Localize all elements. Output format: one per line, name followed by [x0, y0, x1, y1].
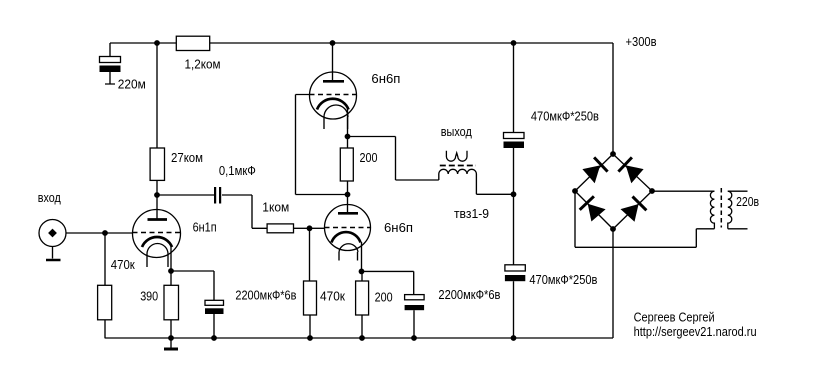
resistor 27ком: [150, 148, 164, 180]
svg-text:27ком: 27ком: [171, 150, 203, 165]
svg-text:220м: 220м: [118, 77, 146, 92]
resistor 1,2ком: [176, 36, 209, 50]
U3 cathode: [317, 99, 349, 110]
U2 heater: [339, 244, 358, 252]
triode U3 upper 6н6п envelope: [310, 72, 357, 119]
node bridge left: [572, 188, 578, 194]
svg-text:выход: выход: [441, 124, 472, 139]
transformer T1 primary: [439, 169, 477, 174]
node tube1 anode: [154, 192, 160, 198]
svg-text:470мкФ*250в: 470мкФ*250в: [531, 109, 599, 124]
wire primary to midpoint: [476, 174, 513, 194]
resistor R 200 SRPP: [340, 148, 353, 181]
resistor R 390: [164, 285, 179, 320]
capacitor 470мкФ*250в upper: [504, 133, 525, 149]
wire output node to R200 top: [347, 137, 349, 149]
node rail filter: [511, 335, 517, 341]
node rail 390: [168, 335, 174, 341]
U3 grid (dashed): [310, 94, 357, 96]
diode bridge frame: [575, 154, 652, 229]
wire 470k2 bottom: [309, 315, 311, 338]
svg-text:390: 390: [140, 289, 158, 304]
wire 390 bottom: [170, 320, 172, 338]
wire 470k bottom to rail: [104, 320, 106, 338]
wire grid node down to 470k: [309, 228, 311, 281]
wire R200 bottom to node: [347, 181, 349, 195]
resistor R 470к input: [98, 285, 112, 320]
svg-text:Сергеев Сергей: Сергеев Сергей: [634, 310, 715, 325]
transformer T2 primary winding: [728, 191, 732, 229]
U2 heater legs: [339, 252, 358, 261]
resistor R 470к second: [304, 281, 317, 315]
wire U3 cathode lead: [347, 109, 349, 137]
svg-text:http://sergeev21.narod.ru: http://sergeev21.narod.ru: [634, 324, 757, 339]
node bridge bottom: [610, 226, 616, 232]
diode D1 left-top: [582, 157, 607, 183]
transformer T2 secondary winding: [710, 191, 714, 229]
wire U3 anode lead: [332, 43, 334, 81]
diode D4 bottom-right: [621, 197, 647, 222]
wire U1 cathode node to 390 and cap: [168, 268, 174, 274]
node tube2 grid: [307, 225, 313, 231]
wire down to 470k: [104, 233, 106, 285]
node rail cap1: [211, 335, 217, 341]
capacitor 2200мкФ*6в second: [405, 295, 425, 338]
wire bridge right to transformer high: [652, 190, 714, 192]
U1 cathode: [142, 237, 172, 247]
triode U2 lower 6н6п envelope: [325, 205, 371, 251]
node bridge right: [649, 188, 655, 194]
U1 plate: [148, 218, 168, 221]
svg-text:200: 200: [375, 290, 393, 305]
wire bridge bottom to ground rail: [612, 229, 614, 338]
node SRPP lower (U2 anode / U3 grid / R200 bottom): [345, 192, 351, 198]
wire +300V drop to bridge top: [612, 43, 614, 154]
U3 heater legs: [324, 117, 348, 129]
U3 plate: [323, 80, 344, 83]
svg-text:6н1п: 6н1п: [193, 220, 217, 235]
svg-text:470к: 470к: [320, 289, 345, 304]
svg-text:6н6п: 6н6п: [371, 71, 400, 86]
wire lower cap to rail: [513, 281, 515, 338]
transformer T2 core (dashed): [720, 188, 722, 228]
svg-text:твз1-9: твз1-9: [454, 206, 489, 221]
U1 grid (dashed): [133, 232, 181, 234]
resistor R 200 second: [356, 281, 369, 315]
U2 grid (dashed): [325, 227, 371, 229]
svg-text:2200мкФ*6в: 2200мкФ*6в: [438, 287, 500, 302]
wire bottom ground rail: [105, 337, 613, 339]
wire 200-2 bottom: [361, 315, 363, 338]
resistor 1ком: [267, 224, 293, 233]
wire grid node to tube2: [310, 227, 325, 229]
wire output to transformer: [348, 137, 439, 181]
wire cathode node right to cap: [171, 271, 214, 300]
node U2 cathode: [359, 269, 365, 275]
wire filter rail top: [513, 43, 515, 133]
node rail 470k2: [307, 335, 313, 341]
svg-text:220в: 220в: [736, 194, 759, 209]
wire cathode node to cap2: [362, 271, 414, 294]
diode D3 bottom-left: [580, 196, 606, 221]
wire U2 anode lead: [347, 195, 349, 213]
wire U1 cathode lead: [170, 246, 172, 271]
wire from rail down to 27k: [156, 43, 158, 148]
node rail 200-2: [359, 335, 365, 341]
svg-text:0,1мкФ: 0,1мкФ: [219, 163, 256, 178]
triode U1 6н1п envelope: [133, 210, 181, 258]
diode D2 right-top: [618, 157, 643, 183]
wire anode lead tube1: [156, 195, 158, 219]
ground under jack: [52, 247, 54, 259]
svg-text:6н6п: 6н6п: [384, 220, 413, 235]
wire U3 grid wire to left and down: [296, 95, 348, 195]
U2 cathode: [332, 232, 361, 242]
input jack J1: [39, 220, 66, 247]
svg-text:1ком: 1ком: [262, 200, 289, 215]
node top rail / upper tube anode: [330, 40, 336, 46]
node input / 470k junction: [102, 230, 108, 236]
wire 1k to grid node: [294, 227, 310, 229]
transformer T1 core (dashed): [440, 165, 476, 167]
node top rail / 1k2 junction: [154, 40, 160, 46]
U3 heater: [324, 105, 348, 117]
U1 heater: [147, 244, 168, 254]
wire between caps: [513, 148, 515, 265]
wire cathode node down to 390: [170, 271, 172, 285]
U2 plate: [338, 212, 358, 215]
svg-text:2200мкФ*6в: 2200мкФ*6в: [235, 288, 296, 303]
U1 heater legs: [147, 254, 168, 267]
wire coupling cap to 1k: [222, 195, 267, 228]
svg-text:470мкФ*250в: 470мкФ*250в: [529, 272, 597, 287]
wire bridge left to transformer low: [575, 191, 714, 247]
svg-text:вход: вход: [38, 190, 61, 205]
capacitor 470мкФ*250в lower: [505, 265, 525, 281]
capacitor C 220м: [100, 57, 121, 85]
wire mains leads: [728, 191, 748, 229]
wire 27k bottom to anode node: [156, 180, 158, 195]
svg-text:+300в: +300в: [626, 34, 657, 49]
svg-text:1,2ком: 1,2ком: [185, 57, 221, 72]
svg-text:470к: 470к: [111, 257, 135, 272]
capacitor 0,1мкФ coupling: [214, 187, 221, 204]
node SRPP output: [345, 134, 351, 140]
node cap midpoint: [511, 191, 517, 197]
capacitor 2200мкФ*6в first: [205, 300, 224, 338]
wire U2 cathode lead: [361, 242, 363, 271]
wire top supply rail: [110, 42, 613, 44]
node bridge top: [610, 151, 616, 157]
node rail cap2: [411, 335, 417, 341]
wire anode node to coupling cap: [157, 194, 214, 196]
wire jack to grid: [66, 232, 133, 234]
node top rail / filter cap: [511, 40, 517, 46]
ground symbol main: [170, 338, 172, 348]
transformer T1 secondary: [446, 151, 467, 162]
svg-text:200: 200: [360, 150, 378, 165]
wire cathode node down to 200: [361, 271, 363, 281]
wire 220m cap top lead: [109, 43, 111, 57]
